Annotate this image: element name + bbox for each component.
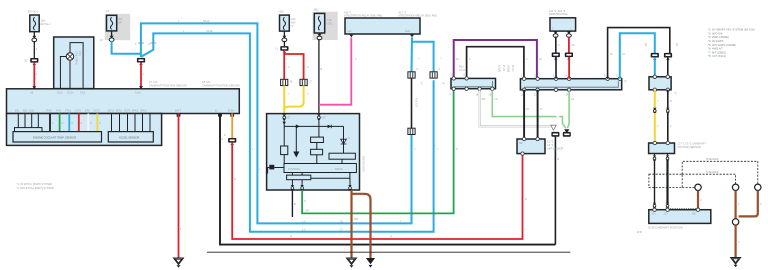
wire F3 stubs [283, 31, 285, 37]
junction connector on red [137, 58, 145, 65]
bowties above ecm2 box [653, 203, 657, 209]
svg-text:J5 J/C: J5 J/C [502, 65, 504, 72]
wire black F1 down [33, 41, 35, 58]
circle 1 [695, 184, 701, 190]
igniter pin bowties [282, 114, 286, 120]
svg-text:IE: IE [25, 60, 28, 63]
svg-text:G: G [304, 200, 306, 203]
svg-text:THA: THA [56, 110, 61, 113]
cam sensor small box [649, 143, 675, 154]
svg-text:G: G [456, 148, 458, 151]
svg-text:*1: W/ ETCS-i (PART) SYSTEM: *1: W/ ETCS-i (PART) SYSTEM [17, 183, 52, 186]
CPU box [311, 149, 323, 155]
dashed line mid [682, 174, 735, 184]
driver box [329, 153, 355, 159]
wire black right long thick [666, 161, 668, 204]
wire black from relay [555, 37, 557, 53]
svg-text:*2: W/O S/K: *2: W/O S/K [708, 31, 723, 35]
svg-text:IGF: IGF [322, 117, 327, 120]
wire green tach [302, 90, 454, 213]
svg-text:DRIVE: DRIVE [335, 168, 343, 171]
svg-text:A1A+: A1A+ [135, 92, 142, 95]
svg-text:BATT: BATT [175, 110, 182, 113]
shield connector IG1 [281, 79, 288, 85]
svg-text:IGT: IGT [287, 117, 292, 120]
wire brown c2 down [734, 191, 736, 219]
svg-text:EFI No.2: EFI No.2 [41, 23, 51, 26]
connector below F4 [317, 34, 322, 40]
svg-text:PARK/NEUTRAL: PARK/NEUTRAL [549, 13, 569, 16]
svg-text:*2: W/O ETCS-i (PART) SYSTEM: *2: W/O ETCS-i (PART) SYSTEM [17, 187, 54, 190]
svg-text:EP1+: EP1+ [108, 110, 115, 113]
svg-text:L-5: L-5 [302, 229, 306, 232]
gray arrow [551, 125, 556, 130]
ground right [731, 258, 741, 268]
tick marks cyan [138, 42, 144, 44]
fuse F1 [30, 15, 39, 32]
inner connector box A [13, 132, 102, 142]
svg-text:A/F: A/F [118, 21, 122, 24]
svg-text:EFI NO.2: EFI NO.2 [28, 11, 39, 14]
svg-text:CONTROL: CONTROL [288, 168, 301, 171]
wire red F1 to ECM [33, 62, 35, 89]
svg-text:POSITION SENSOR: POSITION SENSOR [678, 146, 701, 149]
junction bar B2 [520, 79, 621, 90]
internal rail [284, 125, 343, 127]
B2 pins [522, 77, 525, 80]
svg-text:CKP SENSOR: CKP SENSOR [547, 148, 564, 151]
svg-text:+B: +B [30, 92, 33, 95]
circle 2 [732, 184, 738, 190]
connector pair [651, 53, 659, 60]
shield connector on cyan B [430, 72, 437, 78]
wire black below B3 [667, 90, 669, 108]
igniter bottom pins [291, 180, 293, 185]
wire brown to ground [734, 225, 736, 257]
ground brown 2 (filled) [366, 258, 375, 264]
svg-text:ECM (CAMSHAFT POSITION): ECM (CAMSHAFT POSITION) [648, 227, 682, 230]
svg-text:ENGINE COOLANT TEMP. SENSOR: ENGINE COOLANT TEMP. SENSOR [33, 135, 76, 139]
svg-text:*6: 4WD A/T: *6: 4WD A/T [708, 47, 723, 51]
fuse F2 [107, 15, 117, 31]
zener branch [343, 126, 345, 153]
wire purple loop [454, 40, 537, 79]
connector IE1 [30, 58, 38, 65]
connector on EOM [228, 138, 236, 145]
svg-text:OCV: OCV [78, 51, 80, 56]
junction bar B1 [451, 78, 496, 88]
svg-text:B10(B): B10(B) [507, 65, 509, 72]
svg-text:G2+: G2+ [651, 213, 656, 216]
dashed stub to circle 1 [682, 186, 694, 188]
wire cyan branch [412, 42, 434, 72]
shield connector on cyan A [408, 72, 415, 78]
wire red F3 split [283, 50, 285, 79]
ECM pin wedges [32, 86, 36, 89]
svg-text:J/C A: J/C A [459, 69, 465, 72]
svg-text:*5: W/O EHPS (U660E): *5: W/O EHPS (U660E) [708, 43, 736, 47]
svg-text:R: R [290, 236, 292, 239]
arrow down [295, 126, 297, 151]
svg-text:THW: THW [46, 110, 52, 113]
wire black into bar B3 [667, 57, 669, 77]
legend list top right [708, 28, 755, 59]
ECM sub panel [7, 114, 162, 146]
wire light green from B1 [492, 90, 556, 116]
wire F2 stub [111, 31, 113, 37]
coil box [517, 139, 545, 154]
wire red EOM down-right [232, 142, 522, 239]
svg-text:R: R [234, 178, 236, 181]
inner connector box B [108, 132, 153, 142]
component box: oil control valve [54, 37, 94, 89]
wire magenta [319, 37, 351, 104]
wire black B2 to conn G [608, 28, 670, 79]
ecm2 box [649, 210, 711, 224]
svg-text:OC1-: OC1- [57, 92, 63, 95]
rail diode 2 [328, 125, 332, 129]
fuse F4 panel [313, 12, 338, 40]
top relay box [345, 18, 420, 34]
svg-text:G2-: G2- [664, 213, 668, 216]
junction bar B3 [649, 77, 671, 90]
top box pins [349, 35, 353, 38]
svg-text:*8: CVT (K111): *8: CVT (K111) [708, 54, 726, 58]
svg-text:LG: LG [571, 98, 574, 101]
terminal left [551, 132, 559, 137]
wire brown c3 elbow [739, 191, 758, 217]
wire yellow left [283, 86, 285, 114]
wire red to ECM pin [140, 62, 142, 88]
svg-text:*1: W/ SMART KEY SYSTEM (W/ IG: *1: W/ SMART KEY SYSTEM (W/ IGN) [708, 28, 755, 32]
svg-text:ACCEL SENSOR: ACCEL SENSOR [119, 135, 139, 139]
svg-text:IGN: IGN [279, 10, 284, 13]
svg-text:IGN2: IGN2 [327, 22, 333, 25]
wire black stub below [291, 190, 293, 217]
ring junction [732, 219, 738, 225]
internal vert from black pin [318, 120, 320, 138]
left edge connector [274, 167, 284, 169]
fuse F4 [314, 13, 324, 33]
fuse F2 panel [105, 14, 130, 40]
wire green from B2 [568, 90, 570, 129]
svg-text:NE: NE [519, 142, 523, 145]
svg-text:L-4: L-4 [302, 220, 306, 223]
svg-text:W-B: W-B [637, 231, 642, 234]
svg-text:VPA2: VPA2 [140, 110, 147, 113]
svg-text:VCP2: VCP2 [124, 110, 131, 113]
svg-text:SHIELDED: SHIELDED [706, 158, 719, 161]
colored sensor wires [49, 114, 51, 132]
connector below F3 [282, 36, 287, 42]
connector below F1 [32, 36, 37, 42]
connector 1J [280, 46, 288, 53]
svg-text:AM2: AM2 [405, 30, 411, 33]
svg-text:J6 J/C: J6 J/C [511, 65, 513, 72]
feedback line [311, 173, 350, 179]
valve internal wires [60, 57, 66, 89]
svg-text:*7: M/T (EB62): *7: M/T (EB62) [708, 50, 726, 54]
wire F4 stub [319, 33, 321, 35]
svg-text:INTEGRATION RELAY (ENG RM): INTEGRATION RELAY (ENG RM) [344, 15, 382, 18]
shield connector lower on IGT line [408, 128, 415, 134]
dotted tick line [670, 207, 696, 209]
svg-text:R: R [525, 198, 527, 201]
svg-text:1K: 1K [100, 39, 103, 42]
wire cyan F2 elbow [112, 41, 141, 54]
wire red BATT down to ground [178, 114, 180, 259]
wire black from terminal down [554, 137, 556, 245]
svg-text:IC: IC [347, 137, 349, 140]
svg-text:EPA2: EPA2 [132, 110, 139, 113]
svg-text:GR: GR [482, 98, 486, 101]
svg-text:*3: 2WD (U660E): *3: 2WD (U660E) [708, 35, 729, 39]
shield connector IG2 [300, 79, 307, 85]
cam box bottom pins [654, 154, 656, 156]
svg-text:CAMSHAFT POSITION SENSOR: CAMSHAFT POSITION SENSOR [149, 84, 187, 87]
REG box [311, 137, 324, 142]
wire black loop [467, 47, 524, 79]
top right relay box [550, 18, 576, 31]
svg-text:B IE C/G: B IE C/G [415, 98, 417, 107]
svg-text:AM2: AM2 [314, 9, 320, 12]
svg-text:E01: E01 [15, 110, 20, 113]
wire black segment on IGT line [411, 78, 413, 128]
rail diode 1 [296, 125, 300, 129]
svg-text:WB: WB [354, 218, 358, 221]
igniter internal: left vertical with diode [283, 120, 285, 146]
wire gray from B1 [480, 90, 552, 126]
svg-text:SHIELDED: SHIELDED [706, 171, 719, 174]
ground brown 1 [347, 258, 357, 268]
pins below [555, 31, 557, 33]
wire cyan outer loop up [141, 23, 412, 223]
dashed shield rect [649, 174, 682, 187]
connector below F2 [109, 36, 114, 42]
wire orange EOM [231, 114, 233, 139]
dashed line upper [682, 161, 758, 184]
fuse F3 [280, 15, 290, 31]
circle 3 [755, 184, 761, 190]
right pin group wires [111, 114, 113, 132]
svg-text:A/F: A/F [106, 10, 110, 13]
wire red from relay [568, 37, 570, 53]
left pin group wires [17, 114, 19, 128]
step connector box [15, 128, 43, 132]
wire digit labels [52, 122, 101, 125]
wire brown ground 1 [350, 190, 352, 258]
svg-text:NE-: NE- [692, 213, 696, 216]
wire yellow right merge [284, 86, 303, 111]
svg-text:ETA: ETA [85, 110, 90, 113]
wide control box [284, 164, 356, 173]
wire cyan right pin down [411, 37, 414, 71]
svg-text:VCP1: VCP1 [94, 110, 101, 113]
svg-text:VCTA: VCTA [75, 110, 82, 113]
ground for BATT [174, 258, 184, 268]
wire black F4 down [318, 39, 320, 114]
svg-text:EOM: EOM [228, 110, 234, 113]
svg-text:R: R [390, 235, 392, 238]
svg-text:HA1B: HA1B [206, 30, 213, 33]
wire brown branch [352, 194, 371, 258]
svg-text:EP2+: EP2+ [116, 110, 123, 113]
svg-text:INTEGRATION RELAY (ENG RM): INTEGRATION RELAY (ENG RM) [399, 15, 437, 18]
wire black E1 [220, 114, 555, 245]
terminal right [563, 132, 571, 137]
green arrow [564, 129, 569, 133]
ECM main box [7, 89, 240, 114]
ECM bottom pin labels row [15, 110, 234, 113]
valve motor circle [66, 53, 73, 60]
scattered wire code labels [234, 74, 618, 239]
svg-text:IGN: IGN [291, 21, 296, 24]
wire black left long [654, 161, 656, 204]
svg-text:IGF: IGF [305, 210, 310, 213]
svg-text:HA1A: HA1A [203, 20, 210, 23]
wires black into coil box [523, 90, 525, 139]
svg-text:*4: W/ EHPS: *4: W/ EHPS [708, 39, 724, 43]
wire brown c1 to box [697, 191, 699, 210]
svg-text:E03: E03 [30, 110, 35, 113]
svg-text:LG: LG [495, 98, 498, 101]
lower small box [287, 175, 311, 180]
small box left [281, 146, 288, 155]
thin shield line [207, 251, 570, 253]
svg-text:VTA1: VTA1 [65, 110, 72, 113]
wire yellow below B3 [654, 90, 656, 108]
wire fuse F1 stub [33, 32, 35, 38]
svg-text:CAMSHAFT POSITION SENSOR: CAMSHAFT POSITION SENSOR [202, 84, 240, 87]
svg-text:OC1+: OC1+ [67, 92, 74, 95]
svg-text:OC2: OC2 [80, 92, 86, 95]
B1 pins [452, 77, 455, 80]
wire cyan inner loop up [141, 33, 433, 231]
wire cyan B2 to conn F [620, 33, 655, 78]
svg-text:E02: E02 [23, 110, 28, 113]
svg-text:IG2: IG2 [348, 30, 353, 33]
wire cyan into bar B3 [654, 57, 656, 77]
